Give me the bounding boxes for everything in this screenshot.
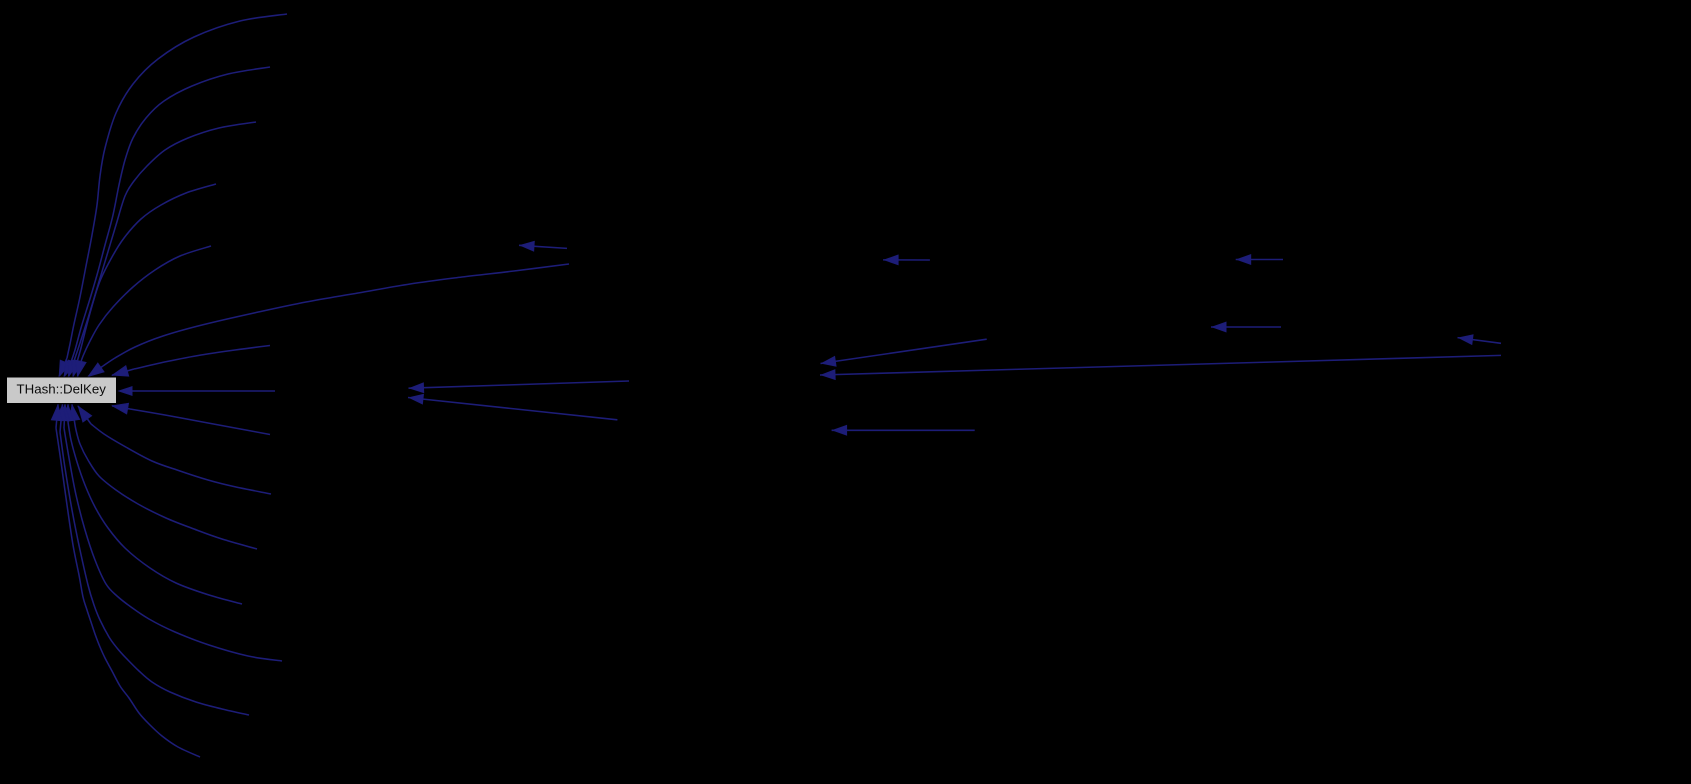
edge caller1 -> THash::DelKey: [59, 14, 287, 377]
edge caller9 -> THash::DelKey: [78, 406, 271, 494]
node THash::DelKey: [7, 377, 117, 404]
edge caller10 -> THash::DelKey: [69, 405, 257, 550]
edge caller8 -> THash::DelKey: [112, 403, 270, 434]
edge node17 -> node m1: [519, 241, 567, 252]
edge -> node m5 (second): [408, 394, 617, 420]
edge -> node m5: [409, 381, 630, 393]
edge caller6 -> THash::DelKey: [88, 264, 569, 377]
edge caller12 -> THash::DelKey: [59, 405, 282, 662]
svg-text:THash::DelKey: THash::DelKey: [16, 382, 106, 397]
edge -> node m3: [821, 339, 987, 367]
edge caller2 -> THash::DelKey: [64, 67, 270, 377]
edge -> node m2: [883, 254, 930, 265]
edge -> node r2: [1211, 322, 1281, 333]
edge node18 -> node m4: [820, 355, 1501, 380]
edge caller13 -> THash::DelKey: [56, 405, 250, 716]
edge -> node r1: [1236, 254, 1283, 265]
edge caller7 -> THash::DelKey: [112, 346, 270, 377]
edge node18 -> node r3: [1458, 334, 1502, 345]
edge caller11 -> THash::DelKey: [62, 405, 242, 605]
edge caller3 -> THash::DelKey: [68, 122, 256, 377]
edge caller4 -> THash::DelKey: [72, 184, 216, 377]
edge caller14 -> THash::DelKey: [51, 405, 200, 758]
edge -> node m6: [832, 425, 975, 436]
edge caller15 -> THash::DelKey (horizontal into right side): [118, 386, 276, 396]
edge caller5 -> THash::DelKey: [75, 246, 211, 377]
